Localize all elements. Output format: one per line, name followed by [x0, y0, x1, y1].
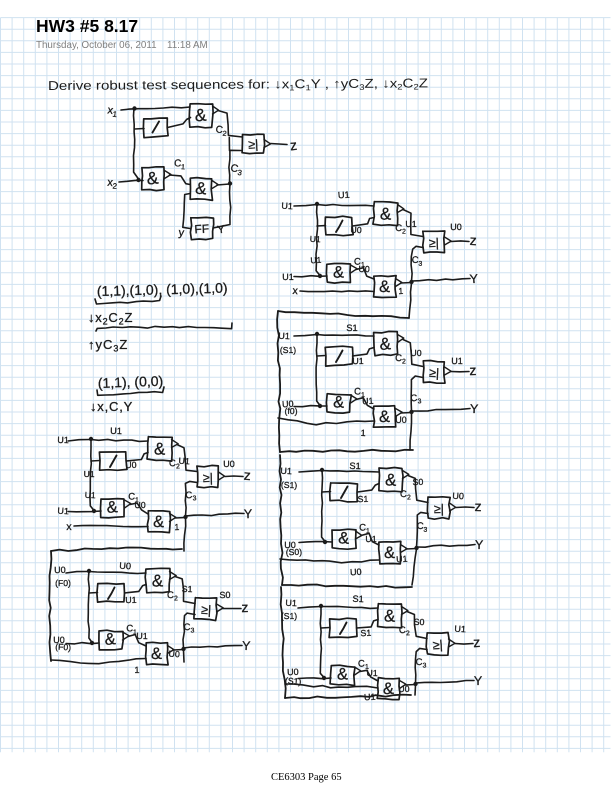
inverter U5n glyph 1 — [336, 351, 343, 363]
svg-text:z: z — [289, 137, 298, 154]
node junction J6c — [414, 546, 418, 550]
node C1 label — [174, 158, 186, 171]
node junction J3c — [181, 647, 185, 651]
node net label S1 above top wire (circuit 7) — [352, 594, 364, 604]
svg-text:C2: C2 — [215, 124, 227, 138]
wire stub to NOT U7n (circuit 7) — [321, 627, 330, 630]
AND gate A1b box — [142, 167, 165, 191]
wire C3 net from junction up to OR U5o lower input — [411, 376, 423, 411]
node input B label U0 (circuit 7) — [285, 667, 302, 687]
node junction J2b on input B wire — [92, 509, 96, 513]
wire C2 net: U31 output to OR U3o — [175, 577, 195, 604]
wire C2 net: U21 output to OR U2o — [177, 445, 197, 472]
svg-text:S0: S0 — [219, 590, 230, 600]
node net label U1 on C2 wire (circuit 4) — [405, 219, 416, 229]
wire C2 net: A1a output to OR gate O1 — [218, 111, 243, 138]
wire lower input from border to AND U63 (circuit 6) — [280, 559, 379, 563]
svg-text:U1: U1 — [125, 595, 137, 605]
wire x input to AND U43 — [300, 290, 374, 293]
wire C1 net: U42 output to AND U43 — [356, 268, 374, 279]
wire C3 net from junction up to OR U3o lower input — [183, 613, 195, 648]
wire border left of circuit 6 box — [280, 455, 283, 585]
svg-text:U1: U1 — [338, 190, 350, 201]
svg-text:z: z — [241, 599, 248, 615]
svg-text:(1,1),(1,0), (1,0),(1,0): (1,1),(1,0), (1,0),(1,0) — [97, 280, 228, 299]
OR gate U5o output tail — [445, 367, 452, 375]
svg-text:x: x — [292, 285, 299, 297]
svg-text:&: & — [153, 513, 164, 531]
node net labels on vertical (circuit 4) — [309, 234, 321, 266]
wire stub to NOT U2n (circuit 2) — [91, 460, 100, 463]
inverter U2n box — [99, 452, 127, 471]
wire junction to Y output (circuit 6) — [417, 545, 476, 548]
node Y output label (circuit 4) — [469, 272, 479, 287]
AND gate U63 box — [379, 541, 401, 564]
AND gate U52 output tail — [351, 395, 357, 403]
AND gate U42 glyph — [333, 263, 344, 281]
OR gate O1 box — [242, 134, 265, 153]
svg-text:&: & — [380, 204, 392, 223]
wire junction J3 down to FF output wire — [230, 184, 231, 224]
wire input B to AND U42 (circuit 4) — [294, 276, 327, 277]
node Z output label (circuit 5) — [469, 362, 476, 378]
node net label 1 below circuit 5 — [360, 428, 365, 438]
svg-text:U1: U1 — [57, 435, 69, 445]
node net label U0 at OR output (circuit 4) — [450, 222, 462, 232]
wire NOT U2n output to AND U21 — [127, 453, 149, 462]
flip-flop FF1 box — [190, 217, 213, 239]
node J3 junction — [228, 181, 232, 185]
AND gate U71 box — [378, 604, 402, 628]
node net labels on vertical (circuit 2) — [84, 469, 97, 500]
svg-text:U1: U1 — [451, 356, 463, 366]
svg-text:U0: U0 — [119, 561, 131, 572]
node net label S0 on C2 wire (circuit 7) — [414, 617, 425, 627]
wire C2 net: U61 output to OR U6o — [408, 476, 428, 503]
node Z output label (circuit 3) — [241, 599, 248, 615]
wire stub to NOT U4n (circuit 4) — [317, 225, 326, 228]
AND gate U41 glyph — [380, 204, 392, 223]
AND gate U41 box — [373, 202, 398, 226]
node input A label U1 (circuit 4) — [281, 201, 293, 212]
node junction J7c — [413, 682, 417, 686]
node net label S1 at NOT output (circuit 6) — [357, 494, 368, 504]
wire border left of circuit 5 box — [277, 311, 280, 452]
wire C1 net: U22 output to AND U23 — [130, 503, 148, 514]
node junction J5b on input B wire — [318, 404, 322, 408]
wire U5o output to Z — [451, 371, 469, 373]
node net label U1 at OR output (circuit 5) — [451, 356, 463, 366]
wire NOT U3n output to AND U31 — [125, 585, 147, 594]
AND gate U72 output tail — [355, 667, 361, 675]
underline bracket 2 — [97, 387, 164, 395]
svg-text:U1: U1 — [84, 469, 95, 479]
node C2 label (circuit 2) — [169, 458, 180, 471]
wire input A to junction (circuit 4) — [294, 205, 317, 207]
AND gate U51 output tail — [398, 335, 404, 343]
wire vertical from junction down (circuit 6) — [322, 470, 325, 542]
AND gate U51 box — [374, 331, 398, 355]
inverter U2n glyph 1 — [110, 456, 117, 468]
node net label U0 at U53 output (circuit 5) — [395, 415, 406, 425]
svg-text:1: 1 — [398, 286, 403, 296]
AND gate U72 box — [330, 665, 355, 685]
node net label U0 above top wire (circuit 3) — [119, 561, 131, 572]
node net label U0 on C1 wire (circuit 2) — [134, 500, 145, 510]
svg-text:Y: Y — [242, 639, 252, 653]
node input B label U0 (circuit 3) — [53, 635, 71, 653]
AND gate U61 output tail — [403, 471, 409, 479]
svg-text:≥|: ≥| — [203, 471, 214, 485]
svg-text:&: & — [151, 645, 162, 663]
wire C3 net from junction up to OR U4o lower input — [411, 246, 423, 281]
svg-text:y: y — [178, 227, 185, 240]
page footer — [271, 772, 342, 783]
node Y output label (circuit 7) — [474, 674, 483, 688]
page title — [36, 16, 138, 37]
svg-text:&: & — [384, 606, 397, 625]
AND gate U73 glyph — [383, 680, 395, 698]
svg-text:U1: U1 — [280, 466, 292, 477]
svg-text:U1: U1 — [281, 201, 293, 212]
node net label S0 on C2 wire (circuit 6) — [412, 477, 423, 487]
wire junction J7c drop down (circuit 7) — [414, 685, 417, 695]
svg-text:U1: U1 — [110, 426, 122, 436]
AND gate U42 output tail — [351, 265, 358, 273]
node x input label (circuit 2) — [66, 521, 72, 533]
wire NOT U5n output to AND U51 — [353, 348, 375, 357]
flip-flop FF1 glyph — [194, 222, 209, 237]
wire U43 output to junction J4c — [401, 282, 412, 285]
svg-text:&: & — [385, 470, 398, 490]
AND gate U41 output tail — [398, 205, 404, 213]
node net label U1 on C2 wire (circuit 2) — [178, 456, 190, 467]
AND gate U22 box — [101, 499, 125, 518]
node C2 label (circuit 7) — [399, 625, 411, 638]
wire junction J2c drop down (circuit 2) — [184, 518, 186, 551]
svg-text:S1: S1 — [357, 494, 368, 504]
wire input A junction to AND U51 — [317, 335, 374, 337]
AND gate A1c glyph — [195, 179, 209, 199]
node net label U1 below circuit 7 — [364, 692, 376, 703]
wire stub to NOT U3n (circuit 3) — [89, 592, 98, 595]
svg-text:1: 1 — [360, 428, 365, 438]
svg-text:&: & — [383, 680, 395, 698]
AND gate A1b glyph — [146, 167, 160, 188]
svg-text:Y: Y — [244, 507, 253, 521]
AND gate U62 box — [332, 529, 356, 549]
wire A1c output to junction J3 — [217, 184, 230, 185]
node input A label U1 (circuit 7) — [281, 598, 297, 621]
svg-text:Derive robust test sequences f: Derive robust test sequences for: ↓x1C1Y… — [48, 75, 428, 94]
AND gate U22 output tail — [125, 500, 131, 508]
OR gate U6o output tail — [450, 503, 456, 511]
svg-text:z: z — [469, 362, 476, 378]
svg-text:Y: Y — [470, 402, 479, 416]
svg-text:↓x,C,Y: ↓x,C,Y — [90, 399, 133, 414]
inverter U5n box — [325, 346, 353, 366]
AND gate U53 glyph — [379, 408, 390, 426]
AND gate A1b output tail — [165, 171, 172, 179]
wire input A junction to AND U71 — [321, 606, 378, 608]
svg-text:C2: C2 — [395, 353, 406, 366]
node C1 label (circuit 3) — [126, 623, 138, 636]
AND gate U21 glyph — [154, 439, 166, 458]
wire C3 net from junction up to OR U6o lower input — [417, 512, 429, 547]
wire junction to Y output (circuit 2) — [186, 513, 245, 516]
wire junction J6c drop down (circuit 6) — [412, 549, 417, 585]
node net label U0 at U33 output (circuit 3) — [168, 649, 180, 660]
wire border left of circuit 7 box — [281, 587, 286, 698]
AND gate U23 glyph — [153, 513, 164, 531]
svg-text:U1: U1 — [364, 692, 376, 703]
svg-text:C2: C2 — [400, 489, 411, 502]
node input B label U1 (circuit 4) — [282, 272, 294, 282]
wire input B to AND U32 (circuit 3) — [66, 643, 99, 644]
OR gate U7o glyph — [432, 638, 443, 653]
svg-text:U1: U1 — [282, 272, 294, 282]
wire border left of circuit 3 box — [49, 551, 51, 661]
svg-text:1: 1 — [134, 665, 139, 675]
OR gate U3o box — [194, 598, 217, 621]
wire lower input from border to AND U53 (circuit 5) — [278, 418, 374, 425]
node net label U1 on C1 wire (circuit 6) — [365, 534, 376, 544]
AND gate U61 glyph — [385, 470, 398, 490]
node Z output label (circuit 2) — [243, 467, 251, 483]
svg-text:U1: U1 — [278, 331, 290, 341]
node input A label U0 (circuit 3) — [54, 565, 71, 588]
svg-text:z: z — [243, 467, 251, 483]
wire C1 net: U32 output to AND U33 — [128, 635, 146, 647]
wire U7o output to Z — [455, 643, 473, 646]
node net label U0 at U73 output (circuit 7) — [398, 684, 410, 694]
AND gate A1c output tail — [212, 181, 218, 189]
wire border bottom of circuit 5 box — [280, 450, 413, 452]
node J2 junction x2 wire — [136, 178, 140, 182]
svg-text:S1: S1 — [182, 584, 193, 594]
svg-text:C3: C3 — [184, 622, 195, 635]
svg-text:S0: S0 — [412, 477, 423, 487]
svg-text:U1: U1 — [309, 234, 321, 245]
node C2 label — [215, 124, 227, 138]
node net label U1 at OR output (circuit 7) — [454, 624, 466, 635]
OR gate O1 output tail — [264, 140, 271, 148]
wire FF1 output to C3 vertical — [213, 225, 230, 229]
OR gate U3o glyph — [201, 603, 212, 618]
node Y output label — [217, 223, 227, 236]
OR gate U4o box — [423, 231, 445, 253]
svg-text:≥|: ≥| — [248, 137, 259, 152]
wire input B to AND U22 (circuit 2) — [68, 510, 101, 513]
node junction J3b on input B wire — [90, 641, 94, 645]
wire input A to junction (circuit 2) — [68, 440, 91, 442]
svg-text:(S1): (S1) — [280, 345, 296, 355]
svg-text:U0: U0 — [452, 491, 464, 502]
svg-text:≥|: ≥| — [434, 502, 444, 516]
node net label 1 at U23 output (circuit 2) — [174, 522, 179, 532]
AND gate U23 output tail — [170, 514, 176, 522]
AND gate U43 output tail — [396, 279, 402, 287]
node C3 label (circuit 6) — [416, 521, 428, 534]
node Y output label (circuit 6) — [475, 538, 484, 552]
wire vertical from junction down (circuit 5) — [316, 334, 320, 406]
node junction J4b on input B wire — [318, 274, 322, 278]
wire U2o output to Z — [225, 475, 243, 478]
svg-text:(S0): (S0) — [286, 547, 303, 558]
svg-text:Y: Y — [469, 272, 479, 287]
node junction J3a — [87, 569, 91, 573]
AND gate U33 box — [146, 642, 169, 665]
node junction J5a — [315, 332, 319, 336]
AND gate U31 glyph — [152, 571, 164, 590]
wire NOT U6n output to AND U61 — [358, 484, 380, 493]
AND gate U33 output tail — [168, 646, 174, 654]
svg-text:≥|: ≥| — [201, 603, 212, 618]
svg-text:&: & — [379, 408, 390, 426]
svg-text:U1: U1 — [405, 219, 416, 229]
AND gate U21 box — [147, 437, 172, 462]
node C2 label (circuit 6) — [400, 489, 411, 502]
node C3 label (circuit 5) — [410, 393, 422, 406]
svg-text:S1: S1 — [346, 323, 357, 333]
svg-text:U1: U1 — [285, 598, 297, 609]
inverter U7n box — [329, 618, 357, 637]
handwritten sequence list line 1 — [97, 280, 228, 299]
handwritten net transition dn x,C,Y — [90, 399, 133, 414]
wire C3 net from junction up to OR U2o lower input — [185, 481, 197, 516]
svg-text:Y: Y — [474, 674, 483, 688]
AND gate U62 glyph — [338, 529, 350, 548]
wire input B to AND U62 (circuit 6) — [299, 541, 332, 544]
node net label U0 at OR output (circuit 2) — [223, 459, 235, 469]
AND gate U32 glyph — [104, 630, 116, 649]
svg-text:C3: C3 — [185, 490, 197, 503]
svg-text:U1: U1 — [178, 456, 190, 467]
svg-text:≥|: ≥| — [429, 366, 440, 380]
AND gate U72 glyph — [337, 665, 348, 683]
AND gate U61 box — [379, 468, 403, 492]
OR gate U4o glyph — [429, 236, 440, 250]
OR gate U6o box — [427, 497, 450, 519]
svg-text:z: z — [469, 232, 477, 248]
inverter U6n glyph 1 — [341, 487, 348, 499]
wire vertical from junction down (circuit 2) — [90, 439, 94, 511]
wire NOT U4n output to AND U41 — [353, 218, 375, 227]
node junction J6a — [320, 468, 324, 472]
inverter N1 box — [143, 118, 168, 138]
AND gate U43 glyph — [379, 278, 390, 296]
inverter N1 glyph 1 — [153, 122, 160, 133]
wire U73 output to junction J7c — [405, 684, 416, 687]
handwritten net transition dn x2C2Z — [88, 310, 133, 327]
handwritten sequence list line 2 — [98, 373, 164, 391]
wire input A junction to AND U21 — [91, 439, 148, 441]
wire C2 net: U71 output to OR U7o — [407, 612, 427, 639]
wire U4o output to Z — [451, 240, 469, 243]
node net label U0 at NOT output (circuit 4) — [350, 225, 362, 235]
svg-text:&: & — [154, 439, 166, 458]
node net label U1 at NOT output (circuit 3) — [125, 595, 137, 605]
node Y output label (circuit 2) — [244, 507, 253, 521]
node net label S1 above top wire (circuit 6) — [349, 461, 360, 471]
svg-text:U0: U0 — [223, 459, 235, 469]
AND gate U52 glyph — [333, 393, 345, 411]
AND gate U53 output tail — [396, 409, 403, 417]
wire NOT U7n output to AND U71 — [357, 620, 379, 629]
svg-text:&: & — [195, 179, 209, 199]
svg-text:&: & — [379, 334, 392, 354]
wire U23 output to junction J2c — [175, 517, 186, 520]
svg-text:FF: FF — [194, 222, 209, 237]
wire border bottom of circuit 7 box — [285, 695, 411, 699]
node net label U0 on C2 wire (circuit 5) — [410, 348, 421, 358]
node junction J6b on input B wire — [323, 540, 327, 544]
svg-text:(f0): (f0) — [285, 406, 298, 416]
svg-text:U1: U1 — [310, 255, 322, 266]
svg-text:≥|: ≥| — [429, 236, 440, 250]
OR gate U4o output tail — [445, 237, 452, 245]
node x1 input label — [106, 104, 118, 119]
page date stamp — [36, 40, 157, 51]
OR gate U2o box — [197, 465, 218, 487]
inverter U4n box — [325, 216, 353, 236]
AND gate U32 output tail — [123, 632, 130, 640]
node Z output label (circuit 6) — [474, 498, 481, 514]
OR gate U7o output tail — [449, 639, 456, 647]
wire C3 net from junction up to OR U7o lower input — [415, 648, 427, 683]
wire x input to AND U23 — [74, 525, 148, 526]
wire U6o output to Z — [456, 506, 474, 509]
wire feedback from A1c lower input down to FF input — [183, 194, 190, 229]
node net label S0 at OR output (circuit 3) — [219, 590, 230, 600]
OR gate O1 glyph — [248, 137, 259, 152]
wire input A to junction (circuit 3) — [66, 572, 89, 574]
node net label U1 on C1 wire (circuit 3) — [136, 631, 148, 641]
node junction J2c — [183, 515, 187, 519]
node x2 input label — [107, 177, 118, 191]
node junction J7b on input B wire — [322, 676, 326, 680]
node C3 label (circuit 7) — [416, 657, 427, 670]
node junction J7a — [319, 604, 323, 608]
node input B label U1 (circuit 2) — [57, 506, 69, 517]
wire junction to Y output (circuit 7) — [416, 681, 475, 684]
svg-text:&: & — [146, 167, 160, 188]
node C3 label (circuit 4) — [411, 255, 422, 268]
wire x1 to AND gate A1a — [121, 107, 190, 110]
svg-text:&: & — [337, 665, 348, 683]
OR gate U2o output tail — [219, 472, 225, 480]
wire junction to Y output (circuit 5) — [412, 409, 471, 412]
svg-text:C3: C3 — [410, 393, 422, 406]
node C1 label (circuit 5) — [354, 386, 365, 399]
svg-text:U1: U1 — [352, 356, 363, 366]
AND gate U52 box — [326, 394, 351, 413]
svg-text:S1: S1 — [349, 461, 360, 471]
node C3 label — [229, 162, 243, 177]
wire lower input from border to AND U33 (circuit 3) — [51, 659, 146, 664]
svg-text:U0: U0 — [350, 567, 362, 578]
wire junction J3c drop down (circuit 3) — [183, 650, 186, 662]
wire U33 output to junction J3c — [173, 649, 184, 652]
svg-text:U1: U1 — [454, 624, 466, 635]
wire input A to junction (circuit 6) — [299, 471, 322, 473]
AND gate U33 glyph — [151, 645, 162, 663]
node net label 1 below circuit 3 — [134, 665, 139, 675]
svg-text:C3: C3 — [229, 162, 243, 177]
node Y output label (circuit 3) — [242, 639, 252, 653]
wire input A junction to AND U41 — [317, 205, 374, 207]
svg-text:↑yC3Z: ↑yC3Z — [88, 337, 128, 354]
